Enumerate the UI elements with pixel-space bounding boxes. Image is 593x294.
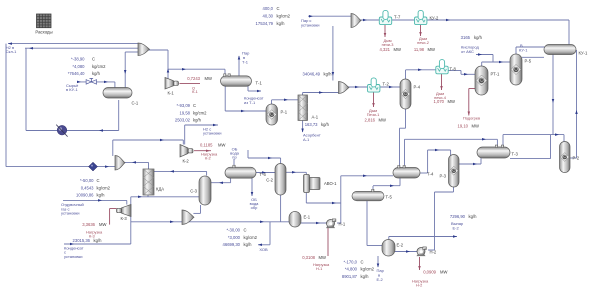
K-3 energy labels xyxy=(82,222,106,238)
wire second return line xyxy=(25,47,138,131)
svg-text:Подогрев: Подогрев xyxy=(463,116,480,121)
wire mixer M3 to T-7 xyxy=(360,19,380,22)
air cooler T-7 xyxy=(379,10,401,24)
compressor K-1 xyxy=(165,78,179,96)
energy stream furnace gas T-7 xyxy=(384,25,387,37)
wire left edge recycle xyxy=(5,44,7,167)
svg-text:C: C xyxy=(92,57,95,62)
svg-text:C: C xyxy=(244,228,247,233)
value absorbent xyxy=(305,122,330,127)
energy stream preheat from RT-1 xyxy=(468,89,475,116)
air cooler T-8 xyxy=(436,60,457,74)
wire K-2 suction header xyxy=(113,139,184,156)
values stripping gas xyxy=(76,178,111,198)
svg-text:10090,86: 10090,86 xyxy=(76,193,94,198)
wire T-5 overhead to T-4 xyxy=(373,178,400,191)
wire steam from unit into mixer M3 xyxy=(308,15,351,18)
wire T-3 overhead to P-2 xyxy=(503,133,564,146)
H-1 energy labels xyxy=(302,255,330,271)
wire T-7 to KU-2 xyxy=(392,19,415,21)
wire C-1 overhead to mixer M1 xyxy=(124,52,138,88)
pump H-1 xyxy=(326,219,346,228)
svg-text:Н-1: Н-1 xyxy=(339,222,346,227)
column C-2 xyxy=(266,164,286,196)
svg-text:MW: MW xyxy=(205,76,212,81)
svg-text:MW: MW xyxy=(319,255,326,260)
svg-text:КУ-1: КУ-1 xyxy=(579,51,589,56)
svg-text:*-50,00: *-50,00 xyxy=(80,178,94,183)
svg-text:kg/h: kg/h xyxy=(474,35,483,40)
svg-text:kg/cm2: kg/cm2 xyxy=(97,185,111,190)
wire P-2 vapor return to KU-1 xyxy=(570,50,578,158)
svg-text:19,10: 19,10 xyxy=(458,124,469,129)
svg-text:Т-3: Т-3 xyxy=(512,152,519,157)
reactor P-2 xyxy=(560,142,580,173)
svg-text:Р-4: Р-4 xyxy=(414,85,421,90)
exchanger T-5 xyxy=(352,189,392,201)
wire P-3 bottoms to H-2 xyxy=(428,187,454,250)
values E-1 feed xyxy=(223,228,258,248)
mixer M2 xyxy=(339,82,350,94)
wire KU-1 bottoms down xyxy=(552,55,555,135)
svg-text:MW: MW xyxy=(394,47,401,52)
svg-text:MW: MW xyxy=(99,222,106,227)
svg-text:К-2: К-2 xyxy=(183,159,190,164)
separator C-1 xyxy=(103,88,139,106)
svg-text:kg/h: kg/h xyxy=(361,274,370,279)
svg-text:печи-2: печи-2 xyxy=(417,40,429,45)
svg-text:из Т-1: из Т-1 xyxy=(244,100,256,105)
svg-text:kg/h: kg/h xyxy=(193,118,202,123)
wire mixer M2 to T-2 xyxy=(348,86,368,89)
values steam header xyxy=(256,6,291,26)
wire P-5 overhead to KU-1 xyxy=(516,47,545,55)
svg-text:установки: установки xyxy=(64,254,83,259)
wire C-3 bottoms into splitter xyxy=(193,205,200,213)
svg-text:Р-1: Р-1 xyxy=(281,110,288,115)
drum E-1 xyxy=(289,212,311,228)
svg-text:Е-2: Е-2 xyxy=(397,243,404,248)
mixer M3 xyxy=(351,14,361,28)
svg-text:К-3: К-3 xyxy=(121,216,128,221)
wire T-5 bottoms to E-2 xyxy=(367,201,382,246)
svg-text:kg/h: kg/h xyxy=(92,71,101,76)
svg-text:*-38,90: *-38,90 xyxy=(71,57,85,62)
compressor K-2 xyxy=(180,145,193,164)
svg-text:Н-1: Н-1 xyxy=(316,266,322,271)
absorber A-1 xyxy=(298,95,319,121)
svg-text:пр: пр xyxy=(232,155,237,160)
svg-text:C: C xyxy=(97,178,100,183)
svg-text:kg/cm2: kg/cm2 xyxy=(361,267,375,272)
energy stream furnace gas KU-2 xyxy=(419,25,422,36)
reactor P-4 xyxy=(400,79,421,109)
wire P-4 overhead to T-8 xyxy=(406,69,437,80)
svg-text:kg/h: kg/h xyxy=(94,238,103,243)
wire bottom gas header with junction xyxy=(6,165,115,168)
svg-text:C: C xyxy=(361,259,364,264)
wire A-1 overhead to mixer M2 xyxy=(303,91,339,95)
splitter cone A xyxy=(115,156,125,171)
svg-text:7296,90: 7296,90 xyxy=(450,214,466,219)
reactor P-3 xyxy=(439,155,459,188)
svg-text:С-1: С-1 xyxy=(132,101,139,106)
exchanger T-3 xyxy=(477,145,518,158)
svg-text:C: C xyxy=(193,103,196,108)
svg-text:АВО-1: АВО-1 xyxy=(324,181,337,186)
stream label steam to T-1 xyxy=(242,51,250,65)
svg-text:0,0909: 0,0909 xyxy=(423,269,436,274)
wire mixer M1 outlet to K-1 xyxy=(148,50,168,80)
air cooler KU-2 xyxy=(415,10,440,24)
svg-text:установки: установки xyxy=(61,211,80,216)
air cooled exchanger AVO-1 xyxy=(304,175,338,193)
svg-text:Т-2: Т-2 xyxy=(383,82,390,87)
reactor P-1 xyxy=(266,104,288,125)
svg-text:Т-8: Т-8 xyxy=(450,67,457,72)
wire P-1 overhead to A-1 xyxy=(272,99,299,104)
compressor K-3 xyxy=(117,205,132,222)
furnace gas labels T-2 xyxy=(365,108,386,122)
wire P-5 side to KU-1 bottom xyxy=(522,56,544,58)
energy stream K-2 duty xyxy=(194,149,211,152)
oxygen labels xyxy=(461,35,483,54)
mixer diamond junction xyxy=(89,162,98,171)
preheat labels xyxy=(458,116,481,129)
svg-text:kg/h: kg/h xyxy=(277,21,286,26)
stream label feed to KU-1 xyxy=(66,83,79,92)
K-2 energy labels xyxy=(200,143,225,161)
stream label stripping gas xyxy=(61,202,84,216)
wire T-6 to C-2 xyxy=(256,171,275,174)
wire E-1 to H-1 xyxy=(301,222,341,225)
svg-text:17534,79: 17534,79 xyxy=(256,21,274,26)
svg-text:3165: 3165 xyxy=(461,35,471,40)
svg-text:Р-5: Р-5 xyxy=(525,59,532,64)
wire E-2 to H-2 xyxy=(395,250,417,253)
svg-text:MW: MW xyxy=(472,124,479,129)
reactor P-5 xyxy=(510,54,532,85)
svg-text:Т-6: Т-6 xyxy=(260,172,267,177)
value absorber feed xyxy=(303,71,333,76)
svg-text:обр: обр xyxy=(251,205,259,210)
wire long condensate header to E-1 xyxy=(131,221,289,224)
cooler X-1 xyxy=(56,125,67,137)
energy stream H-1 duty xyxy=(327,228,329,256)
svg-text:MW: MW xyxy=(440,269,447,274)
flowsheet table icon Raskhody xyxy=(35,14,52,35)
svg-text:ХОВ: ХОВ xyxy=(259,247,268,252)
svg-text:установки: установки xyxy=(301,22,320,27)
svg-text:kg/cm2: kg/cm2 xyxy=(277,14,291,19)
stream label steam from unit xyxy=(301,18,320,27)
wire oxygen feed xyxy=(476,53,493,62)
svg-text:34046,49: 34046,49 xyxy=(303,71,321,76)
svg-text:*-30,00: *-30,00 xyxy=(226,228,240,233)
wire T-3 shell outlet xyxy=(510,135,551,159)
svg-text:А-1: А-1 xyxy=(312,115,319,120)
svg-text:MW: MW xyxy=(428,47,435,52)
wire RT-1 overhead to P-5 xyxy=(482,61,510,67)
svg-text:КУ-2: КУ-2 xyxy=(430,16,440,21)
wire C-1 bottoms through cooler xyxy=(26,100,119,132)
wire stripping gas feed to K-3 xyxy=(63,199,127,204)
svg-text:kg/h: kg/h xyxy=(324,71,333,76)
svg-text:Т-1: Т-1 xyxy=(242,60,249,65)
svg-text:Т-1: Т-1 xyxy=(256,81,263,86)
wire recycle down to mixer M2 xyxy=(332,26,335,81)
svg-text:КУ-1: КУ-1 xyxy=(519,48,528,53)
svg-text:С-2: С-2 xyxy=(266,178,273,183)
svg-text:Т-4: Т-4 xyxy=(427,172,434,177)
svg-text:23015,36: 23015,36 xyxy=(73,238,91,243)
svg-text:Р-3: Р-3 xyxy=(439,174,446,179)
svg-text:Т-5: Т-5 xyxy=(386,195,393,200)
svg-text:Е-2: Е-2 xyxy=(377,277,384,282)
air cooler T-2 xyxy=(368,78,390,92)
wire feed through valve to C-1 xyxy=(77,81,115,88)
wire T-6 bottoms to C-3 xyxy=(211,178,231,184)
wire P-4 bottoms to T-4 xyxy=(400,109,406,166)
energy stream K-3 duty xyxy=(110,209,117,225)
H-2 energy labels xyxy=(412,269,447,287)
svg-text:от АКС: от АКС xyxy=(461,49,474,54)
svg-text:C: C xyxy=(277,6,280,11)
stream label H2 from unit xyxy=(203,126,222,135)
svg-text:*-170,0: *-170,0 xyxy=(343,259,357,264)
stream label H2 to storage xyxy=(6,45,17,54)
condensate labels xyxy=(64,238,102,259)
svg-text:Скл-1: Скл-1 xyxy=(6,49,17,54)
K-1 energy labels xyxy=(187,76,212,94)
wire P-3 to T-3 xyxy=(459,158,481,165)
steam drum T-1 xyxy=(221,74,263,87)
pump H-2 xyxy=(417,247,437,256)
furnace gas labels T-8 xyxy=(434,91,455,104)
svg-text:46699,30: 46699,30 xyxy=(223,242,241,247)
svg-text:*4,080: *4,080 xyxy=(72,64,85,69)
svg-text:4,321: 4,321 xyxy=(380,47,391,52)
waste heat boiler KU-1 xyxy=(544,45,588,56)
wire condensate from unit riser xyxy=(64,197,131,245)
wire splitter A to KDA top xyxy=(124,161,149,169)
wire K-2 discharge H2 to unit xyxy=(185,124,218,145)
svg-text:MW: MW xyxy=(218,143,225,148)
label steam E-2 xyxy=(377,268,385,282)
svg-text:установки: установки xyxy=(203,131,222,136)
wire T-4 overhead heater line to T-3 xyxy=(405,138,498,166)
svg-text:К-1: К-1 xyxy=(192,89,198,94)
wire T-1 bottoms to P-1 xyxy=(225,86,266,112)
svg-text:С-3: С-3 xyxy=(190,189,197,194)
stream label condensate from T-1 xyxy=(244,96,264,105)
wire H2-to-storage top line xyxy=(8,42,140,45)
values K-1 suction xyxy=(175,103,207,123)
stream label absorbent A-1 xyxy=(303,133,321,142)
svg-text:*-93,09: *-93,09 xyxy=(176,103,190,108)
svg-text:11,98: 11,98 xyxy=(414,47,425,52)
svg-text:*7646,40: *7646,40 xyxy=(68,71,85,76)
wire C-2 to AVO-1 xyxy=(286,171,306,175)
svg-text:2,816: 2,816 xyxy=(365,117,376,122)
svg-text:kg/h: kg/h xyxy=(97,193,106,198)
wire KDA bottoms to C-3 xyxy=(131,192,199,198)
svg-text:А-1: А-1 xyxy=(303,137,310,142)
column KDA xyxy=(143,169,164,195)
svg-text:Е-2: Е-2 xyxy=(453,225,460,230)
label HOV xyxy=(259,247,268,252)
svg-text:КДА: КДА xyxy=(156,187,164,192)
svg-text:kg/cm2: kg/cm2 xyxy=(244,235,258,240)
energy stream furnace gas T-2 xyxy=(372,92,375,107)
wire T-8 to RT-1 xyxy=(448,71,475,76)
wire E-2 vapor product xyxy=(389,235,457,240)
svg-text:0,7243: 0,7243 xyxy=(187,76,200,81)
svg-text:163,73: 163,73 xyxy=(305,122,318,127)
wire K-1 discharge to T-1 xyxy=(167,68,225,76)
svg-text:3,3636: 3,3636 xyxy=(82,222,95,227)
wire cooling water into T-6 xyxy=(233,159,235,167)
svg-text:Т-7: Т-7 xyxy=(394,15,401,20)
valve VLV-1 xyxy=(86,79,96,85)
mixer M1 xyxy=(138,43,150,56)
wire HOV makeup xyxy=(258,222,270,246)
wire T-4 to P-3 xyxy=(420,149,451,173)
svg-text:1,070: 1,070 xyxy=(434,99,445,104)
label cooling water return xyxy=(250,197,260,210)
svg-text:kg/cm2: kg/cm2 xyxy=(193,110,207,115)
wire KDA reflux from C-3 top xyxy=(153,170,207,175)
wire AVO-1 outlet down and right xyxy=(306,176,341,223)
svg-text:РТ-1: РТ-1 xyxy=(491,72,501,77)
svg-text:0,1185: 0,1185 xyxy=(200,143,213,148)
svg-text:Р-2: Р-2 xyxy=(573,156,580,161)
wire line into T-4 left xyxy=(341,175,393,178)
svg-text:19,58: 19,58 xyxy=(180,110,191,115)
svg-text:kg/h: kg/h xyxy=(469,214,478,219)
energy stream Q K-1 xyxy=(180,82,201,84)
label V KU-1 xyxy=(519,43,528,52)
exchanger T-6 xyxy=(225,165,266,178)
wire C-2 bottoms xyxy=(280,195,282,222)
svg-text:*4,800: *4,800 xyxy=(345,267,358,272)
svg-text:kg/cm2: kg/cm2 xyxy=(92,64,106,69)
wire C-2 overhead xyxy=(248,150,281,164)
furnace gas labels T-7 xyxy=(380,38,401,52)
svg-text:40,30: 40,30 xyxy=(263,14,274,19)
energy stream furnace gas T-8 xyxy=(440,74,443,90)
svg-text:Расходы: Расходы xyxy=(35,30,52,35)
energy stream H-2 duty xyxy=(418,257,421,270)
column C-3 xyxy=(190,176,211,205)
svg-text:2503,02: 2503,02 xyxy=(175,118,191,123)
exchanger T-4 xyxy=(393,166,434,179)
E-2 vapor labels xyxy=(450,214,477,230)
wire T-2 to P-4 xyxy=(380,86,400,89)
wire E-2 bottoms steam out xyxy=(377,256,380,268)
svg-text:400,0: 400,0 xyxy=(263,6,274,11)
label cooling water supply xyxy=(230,147,240,160)
wire A-1 bottoms absorbent outlet xyxy=(301,121,304,133)
svg-text:К-1: К-1 xyxy=(168,91,175,96)
svg-text:Печи-1: Печи-1 xyxy=(367,112,380,117)
reactor RT-1 xyxy=(475,66,500,95)
furnace gas labels KU-2 xyxy=(414,36,435,52)
svg-text:Н-2: Н-2 xyxy=(416,282,422,287)
svg-text:Е-1: Е-1 xyxy=(304,215,311,220)
wire T-6 water return xyxy=(251,178,254,196)
wire steam into T-1 xyxy=(238,56,241,77)
svg-text:К-2: К-2 xyxy=(205,155,211,160)
svg-text:Н-2: Н-2 xyxy=(430,250,437,255)
drum E-2 xyxy=(382,240,404,257)
svg-text:MW: MW xyxy=(379,117,386,122)
svg-text:8901,87: 8901,87 xyxy=(342,274,358,279)
wire KU-2 to KU-1 xyxy=(427,19,569,45)
svg-text:kg/h: kg/h xyxy=(321,122,330,127)
wire T-1 condensate outlet xyxy=(248,86,261,92)
svg-text:в КУ-1: в КУ-1 xyxy=(66,87,78,92)
svg-text:0,4543: 0,4543 xyxy=(81,185,94,190)
svg-text:Конденсат: Конденсат xyxy=(64,245,84,250)
values H-1 circuit xyxy=(342,259,375,279)
splitter cone B xyxy=(182,210,194,225)
svg-text:MW: MW xyxy=(448,99,455,104)
svg-text:*3,000: *3,000 xyxy=(228,235,241,240)
svg-text:0,3108: 0,3108 xyxy=(302,255,315,260)
values feed C-1 xyxy=(68,57,106,77)
svg-text:kg/h: kg/h xyxy=(244,242,253,247)
